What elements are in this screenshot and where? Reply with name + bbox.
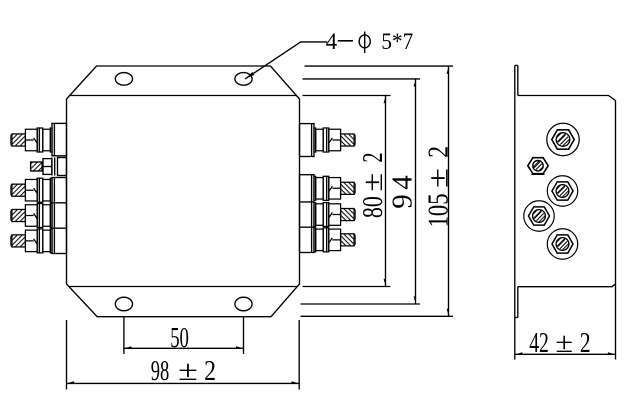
svg-text:4: 4 bbox=[388, 175, 419, 190]
svg-text:98: 98 bbox=[151, 356, 170, 387]
svg-text:2: 2 bbox=[424, 146, 455, 158]
svg-text:2: 2 bbox=[358, 152, 389, 162]
svg-text:42: 42 bbox=[529, 328, 549, 359]
svg-text:2: 2 bbox=[204, 356, 216, 387]
svg-text:±: ± bbox=[424, 168, 455, 188]
svg-text:4: 4 bbox=[326, 29, 338, 54]
svg-text:105: 105 bbox=[424, 193, 455, 227]
svg-text:±: ± bbox=[178, 356, 198, 387]
svg-text:50: 50 bbox=[170, 323, 189, 354]
svg-text:5*7: 5*7 bbox=[381, 29, 413, 54]
svg-text:9: 9 bbox=[388, 194, 419, 209]
svg-text:±: ± bbox=[358, 173, 389, 192]
svg-text:±: ± bbox=[555, 328, 573, 359]
svg-text:2: 2 bbox=[580, 328, 591, 359]
svg-text:80: 80 bbox=[358, 196, 389, 218]
